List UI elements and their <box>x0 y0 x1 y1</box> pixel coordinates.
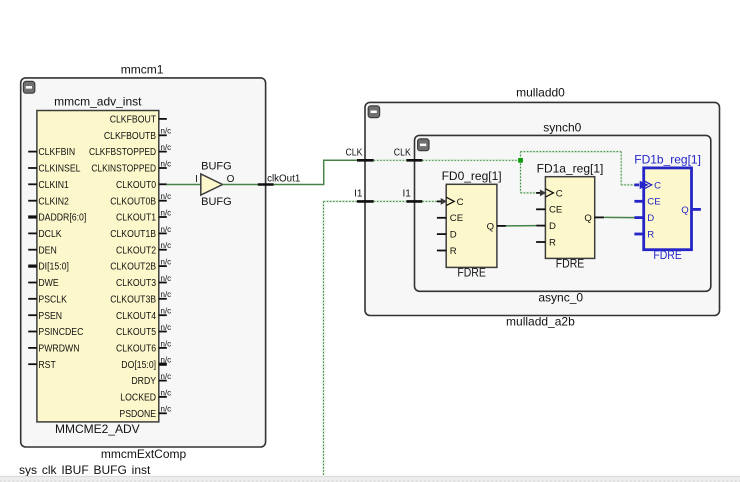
svg-text:n/c: n/c <box>161 323 172 332</box>
pin PSDONE (output) with n/c <box>119 405 171 420</box>
pin D of FD0_reg[1] <box>437 230 457 241</box>
svg-text:PSEN: PSEN <box>38 311 62 322</box>
pin R of FD1b_reg[1] <box>634 229 654 240</box>
pin CLKOUT2B (output) with n/c <box>110 258 171 273</box>
wire CLKOUT0 to BUFG input <box>167 184 201 186</box>
flip-flop FD1a_reg[1] body <box>545 177 594 259</box>
svg-text:CLKOUT0B: CLKOUT0B <box>110 196 156 207</box>
flip-flop FD0_reg[1] body <box>446 184 497 267</box>
pin DO[15:0] (output) with n/c <box>121 356 171 371</box>
svg-text:R: R <box>647 229 654 240</box>
wire dashed CLK inside synch0 to junction <box>422 159 520 161</box>
pin Q of FD0_reg[1] <box>487 221 507 232</box>
svg-text:FD1a_reg[1]: FD1a_reg[1] <box>537 161 604 175</box>
svg-text:mmcm_adv_inst: mmcm_adv_inst <box>54 94 142 108</box>
wire dashed clkOut1 drop to bottom edge <box>322 201 324 475</box>
svg-text:FD1b_reg[1]: FD1b_reg[1] <box>634 153 701 167</box>
svg-text:n/c: n/c <box>161 208 172 217</box>
pin D of FD1b_reg[1] <box>634 213 654 224</box>
svg-text:FDRE: FDRE <box>653 248 682 262</box>
pin CLKOUT6 (output) with n/c <box>116 339 171 354</box>
svg-text:synch0: synch0 <box>543 120 581 134</box>
pin D of FD1a_reg[1] <box>536 221 556 232</box>
svg-text:CLKFBOUT: CLKFBOUT <box>110 115 156 126</box>
boundary stub clkOut1 at mmcm1 edge <box>258 183 274 186</box>
svg-text:n/c: n/c <box>161 258 172 267</box>
pin C of FD1a_reg[1] clock input <box>536 188 563 199</box>
wire dashed into FD1b C <box>621 184 635 186</box>
svg-text:CE: CE <box>647 197 660 208</box>
pin CLKFBSTOPPED (output) with n/c <box>89 143 171 158</box>
svg-text:CLKOUT4: CLKOUT4 <box>116 311 156 322</box>
svg-text:mulladd_a2b: mulladd_a2b <box>506 315 575 329</box>
svg-text:R: R <box>450 246 457 257</box>
wire dashed I1 outside mulladd0 <box>324 200 358 202</box>
svg-text:n/c: n/c <box>161 356 172 365</box>
svg-text:CLKOUT2B: CLKOUT2B <box>110 262 156 273</box>
svg-text:PSDONE: PSDONE <box>119 409 156 420</box>
wire BUFG output net clkOut1 <box>223 184 324 186</box>
pin DCLK (input) <box>28 229 62 240</box>
wire dashed drop to FD1b C level <box>620 152 622 185</box>
svg-text:n/c: n/c <box>161 127 172 136</box>
pin CE of FD1a_reg[1] <box>536 205 562 216</box>
collapse button synch0 <box>418 139 429 151</box>
svg-text:CLKFBIN: CLKFBIN <box>38 147 75 158</box>
wire clkOut1 vertical rise <box>323 160 325 186</box>
svg-text:Q: Q <box>584 213 591 224</box>
pin LOCKED (output) with n/c <box>120 388 171 403</box>
svg-text:DRDY: DRDY <box>131 376 156 387</box>
pin CLKINSTOPPED (output) with n/c <box>91 159 171 174</box>
boundary stub I1 at synch0 edge <box>406 200 422 203</box>
wire FD0.Q to FD1a.D <box>506 225 537 227</box>
svg-text:n/c: n/c <box>161 307 172 316</box>
collapse button mulladd0 <box>368 106 379 118</box>
wire dashed to FD1a C <box>521 192 537 194</box>
pin CE of FD1b_reg[1] <box>634 197 660 208</box>
svg-text:CE: CE <box>450 213 463 224</box>
pin PWRDWN (input) <box>28 344 79 355</box>
wire clkOut1 to mulladd0 CLK port <box>323 159 357 161</box>
svg-text:O: O <box>227 174 235 185</box>
pin Q of FD1a_reg[1] <box>584 213 604 224</box>
block synch0 container <box>415 135 711 291</box>
svg-text:CLK: CLK <box>346 147 363 158</box>
svg-text:MMCME2_ADV: MMCME2_ADV <box>55 422 140 436</box>
pin DADDR[6:0] (input) <box>28 213 86 224</box>
block mulladd0 container <box>365 102 720 315</box>
pin CLKFBIN (input) <box>28 147 75 158</box>
svg-text:CLKFBSTOPPED: CLKFBSTOPPED <box>89 147 156 158</box>
svg-text:DWE: DWE <box>38 278 59 289</box>
svg-text:I: I <box>195 174 198 185</box>
svg-text:n/c: n/c <box>161 159 172 168</box>
svg-text:mmcmExtComp: mmcmExtComp <box>101 447 187 461</box>
pin CLKOUT0B (output) with n/c <box>110 192 171 207</box>
svg-text:CLKFBOUTB: CLKFBOUTB <box>104 131 156 142</box>
svg-text:CLKINSEL: CLKINSEL <box>38 164 80 175</box>
collapse button mmcm1 <box>23 81 34 93</box>
svg-text:n/c: n/c <box>161 290 172 299</box>
svg-text:C: C <box>556 188 563 199</box>
svg-text:PSINCDEC: PSINCDEC <box>38 327 83 338</box>
flip-flop FD1b_reg[1] body <box>644 168 692 250</box>
svg-text:CLKOUT6: CLKOUT6 <box>116 344 156 355</box>
wire dashed junction down <box>519 160 521 193</box>
pin R of FD1a_reg[1] <box>536 237 556 248</box>
svg-text:n/c: n/c <box>161 274 172 283</box>
pin CLKOUT1B (output) with n/c <box>110 225 171 240</box>
svg-text:CLKOUT1B: CLKOUT1B <box>110 229 156 240</box>
svg-text:C: C <box>654 180 661 191</box>
pin CLKOUT2 (output) with n/c <box>116 241 171 256</box>
svg-text:CLKOUT1: CLKOUT1 <box>116 213 156 224</box>
svg-text:CLKINSTOPPED: CLKINSTOPPED <box>91 164 156 175</box>
pin CLKOUT0 (output) <box>116 180 167 191</box>
component MMCME2_ADV (mmcm_adv_inst) body <box>37 111 159 422</box>
pin CLKINSEL (input) <box>28 164 81 175</box>
pin RST (input) <box>28 360 56 371</box>
svg-text:FDRE: FDRE <box>556 257 585 271</box>
boundary stub I1 at mulladd0 edge <box>357 200 374 203</box>
pin C of FD0_reg[1] clock input <box>437 197 464 208</box>
wire dashed CLK between mulladd0 and synch0 <box>374 159 407 161</box>
svg-text:DCLK: DCLK <box>38 229 61 240</box>
wire dashed top run toward FD1b <box>521 151 622 153</box>
svg-text:n/c: n/c <box>161 339 172 348</box>
pin CE of FD0_reg[1] <box>437 213 463 224</box>
svg-text:sys clk IBUF BUFG inst: sys clk IBUF BUFG inst <box>19 463 151 477</box>
wire dashed I1 between mulladd0 and synch0 <box>374 200 407 202</box>
svg-text:Q: Q <box>487 221 494 232</box>
svg-text:CLKOUT0: CLKOUT0 <box>116 180 156 191</box>
svg-text:RST: RST <box>38 360 55 371</box>
svg-text:CLKIN1: CLKIN1 <box>38 180 69 191</box>
pin CLKIN1 (input) <box>28 180 69 191</box>
svg-text:n/c: n/c <box>161 372 172 381</box>
pin DWE (input) <box>28 278 59 289</box>
svg-text:n/c: n/c <box>161 241 172 250</box>
svg-text:DO[15:0]: DO[15:0] <box>121 360 156 371</box>
svg-text:n/c: n/c <box>161 405 172 414</box>
svg-text:n/c: n/c <box>161 192 172 201</box>
svg-text:CLKIN2: CLKIN2 <box>38 196 69 207</box>
svg-text:D: D <box>549 221 556 232</box>
svg-text:FDRE: FDRE <box>457 266 486 280</box>
pin DI[15:0] (input) <box>28 262 69 273</box>
svg-text:clkOut1: clkOut1 <box>267 174 301 185</box>
pin CLKIN2 (input) <box>28 196 69 207</box>
pin DRDY (output) with n/c <box>131 372 171 387</box>
svg-text:I1: I1 <box>354 189 363 200</box>
svg-text:async_0: async_0 <box>538 291 583 305</box>
svg-text:I1: I1 <box>402 189 411 200</box>
pin PSINCDEC (input) <box>28 327 83 338</box>
svg-text:D: D <box>450 230 457 241</box>
junction node CLK <box>518 158 523 163</box>
pin DEN (input) <box>28 245 57 256</box>
svg-text:R: R <box>549 237 556 248</box>
svg-text:PWRDWN: PWRDWN <box>38 344 79 355</box>
svg-text:D: D <box>647 213 654 224</box>
svg-text:n/c: n/c <box>161 225 172 234</box>
svg-text:C: C <box>457 197 464 208</box>
svg-text:LOCKED: LOCKED <box>120 393 156 404</box>
svg-text:n/c: n/c <box>161 388 172 397</box>
svg-text:n/c: n/c <box>161 143 172 152</box>
svg-text:mmcm1: mmcm1 <box>121 63 164 77</box>
bottom scrollbar bar <box>0 476 740 482</box>
boundary stub CLK at synch0 edge <box>406 159 422 162</box>
svg-text:CLK: CLK <box>394 147 411 158</box>
svg-text:DADDR[6:0]: DADDR[6:0] <box>38 213 86 224</box>
wire dashed I1 inside synch0 to FD0 C <box>422 200 437 202</box>
svg-text:PSCLK: PSCLK <box>38 294 67 305</box>
wire FD1a.Q to FD1b.D <box>604 216 634 218</box>
svg-text:mulladd0: mulladd0 <box>516 86 565 100</box>
svg-text:DI[15:0]: DI[15:0] <box>38 262 69 273</box>
pin PSEN (input) <box>28 311 62 322</box>
pin CLKOUT1 (output) with n/c <box>116 208 171 223</box>
svg-text:DEN: DEN <box>38 245 56 256</box>
pin PSCLK (input) <box>28 294 67 305</box>
svg-text:FD0_reg[1]: FD0_reg[1] <box>442 169 502 183</box>
pin CLKFBOUTB (output) with n/c <box>104 127 171 142</box>
pin C of FD1b_reg[1] clock input <box>634 180 661 191</box>
pin Q of FD1b_reg[1] <box>681 205 701 216</box>
svg-text:CLKOUT5: CLKOUT5 <box>116 327 156 338</box>
svg-text:CLKOUT2: CLKOUT2 <box>116 245 156 256</box>
pin CLKOUT3 (output) with n/c <box>116 274 171 289</box>
pin R of FD0_reg[1] <box>437 246 457 257</box>
pin CLKOUT4 (output) with n/c <box>116 307 171 322</box>
buffer BUFG triangle <box>201 174 223 195</box>
svg-text:CE: CE <box>549 205 562 216</box>
boundary stub CLK at mulladd0 edge <box>357 159 374 162</box>
pin CLKFBOUT (output) <box>110 115 167 126</box>
svg-text:CLKOUT3: CLKOUT3 <box>116 278 156 289</box>
svg-text:BUFG: BUFG <box>201 196 232 208</box>
pin CLKOUT3B (output) with n/c <box>110 290 171 305</box>
svg-text:Q: Q <box>681 205 688 216</box>
block mmcm1 container <box>21 78 266 447</box>
pin CLKOUT5 (output) with n/c <box>116 323 171 338</box>
wire dashed junction up <box>519 152 521 161</box>
svg-text:BUFG: BUFG <box>201 160 232 172</box>
svg-text:CLKOUT3B: CLKOUT3B <box>110 294 156 305</box>
